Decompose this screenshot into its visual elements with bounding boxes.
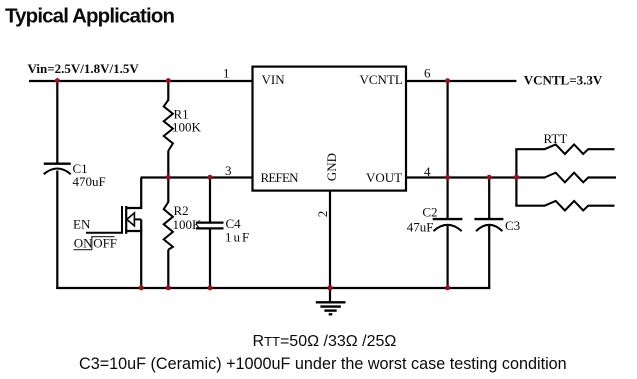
svg-text:VIN: VIN bbox=[262, 72, 286, 87]
transistor Q1 N-MOSFET bbox=[122, 178, 141, 289]
resistor RTT top bbox=[515, 144, 614, 154]
svg-text:470uF: 470uF bbox=[73, 174, 106, 189]
svg-text:C3: C3 bbox=[505, 218, 520, 233]
node: junction dot R1/R2 on REFEN rail bbox=[166, 175, 171, 180]
capacitor C3 bbox=[474, 218, 520, 233]
wire: left vertical from Vin rail down to C1 top plate bbox=[56, 81, 58, 164]
op-amp U1 regulator IC box bbox=[253, 67, 407, 191]
wire: VCNTL pin 6 to net label bbox=[406, 80, 517, 82]
wire: RTT bus vertical bbox=[515, 149, 517, 206]
svg-text:100K: 100K bbox=[173, 217, 203, 232]
capacitor C2 bbox=[407, 205, 463, 235]
wire: bottom rail bbox=[56, 287, 490, 289]
svg-text:OFF: OFF bbox=[93, 235, 117, 250]
svg-text:4: 4 bbox=[424, 164, 431, 179]
node: junction dot Vin/R1 bbox=[166, 78, 171, 83]
node: junction dot GND / bottom rail bbox=[327, 285, 332, 290]
svg-text:VOUT: VOUT bbox=[366, 170, 402, 185]
wire: pin 2 GND stem bbox=[329, 191, 331, 290]
svg-text:ON: ON bbox=[74, 235, 93, 250]
wire: C1 bottom to bottom rail bbox=[56, 171, 58, 290]
svg-text:C3=10uF (Ceramic) +1000uF unde: C3=10uF (Ceramic) +1000uF under the wors… bbox=[79, 355, 567, 373]
node: junction dot C4 on REFEN rail bbox=[208, 175, 213, 180]
svg-text:1uF: 1uF bbox=[225, 230, 251, 245]
capacitor C4 bbox=[196, 178, 251, 290]
svg-text:GND: GND bbox=[324, 153, 339, 181]
wire: REFEN rail (pin 3) from MOSFET drain to IC bbox=[141, 176, 253, 178]
resistor RTT bottom bbox=[515, 201, 614, 211]
node: junction dot C4 / bottom rail bbox=[208, 285, 213, 290]
svg-text:VCNTL=3.3V: VCNTL=3.3V bbox=[524, 73, 603, 88]
node: junction dot R2 / bottom rail bbox=[166, 285, 171, 290]
svg-text:Vin=2.5V/1.8V/1.5V: Vin=2.5V/1.8V/1.5V bbox=[28, 61, 140, 76]
wire: C3 branch bbox=[488, 178, 490, 221]
svg-text:REFEN: REFEN bbox=[261, 170, 300, 185]
node: junction dot C2 / bottom rail bbox=[445, 285, 450, 290]
svg-text:1: 1 bbox=[223, 66, 230, 81]
node: junction dot VOUT / RTT bus bbox=[514, 175, 519, 180]
wire: Vin top rail to pin 1 bbox=[29, 80, 253, 82]
svg-text:47uF: 47uF bbox=[407, 220, 434, 235]
capacitor C1 bbox=[44, 161, 106, 189]
node: junction dot VCNTL/C2 bbox=[445, 78, 450, 83]
svg-text:2: 2 bbox=[315, 211, 330, 218]
svg-text:VCNTL: VCNTL bbox=[360, 72, 403, 87]
node: junction dot VOUT/C2 branch bbox=[445, 175, 450, 180]
svg-text:3: 3 bbox=[225, 163, 232, 178]
node: junction dot VOUT/C3 branch bbox=[487, 175, 492, 180]
ground bbox=[316, 288, 346, 314]
wire: C3 bottom to bottom rail end bbox=[488, 226, 490, 289]
svg-text:R2: R2 bbox=[174, 203, 189, 218]
wire: C2 branch from VCNTL rail bbox=[447, 81, 449, 220]
node: junction dot Vin/C1 bbox=[55, 78, 60, 83]
resistor RTT middle bbox=[515, 173, 616, 183]
ON/OFF label bbox=[74, 235, 118, 250]
node: junction dot Q1 source / bottom rail bbox=[139, 285, 144, 290]
svg-text:100K: 100K bbox=[172, 120, 202, 135]
svg-text:Typical Application: Typical Application bbox=[5, 5, 175, 28]
wire: EN gate lead bbox=[86, 232, 122, 234]
svg-text:EN: EN bbox=[73, 217, 91, 232]
svg-text:6: 6 bbox=[424, 66, 431, 81]
wire: C2 bottom to bottom rail bbox=[447, 226, 449, 289]
svg-text:C2: C2 bbox=[422, 205, 437, 220]
wire: VOUT pin 4 rail to RTT bus bbox=[406, 176, 517, 178]
resistor R1 bbox=[164, 81, 202, 179]
resistor R2 bbox=[164, 178, 202, 290]
svg-text:RTT=50Ω /33Ω /25Ω: RTT=50Ω /33Ω /25Ω bbox=[253, 333, 397, 350]
